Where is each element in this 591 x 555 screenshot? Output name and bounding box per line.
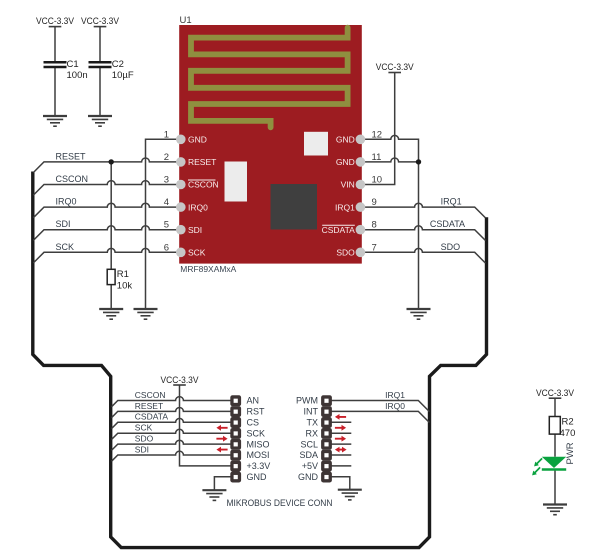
svg-text:IRQ1: IRQ1 bbox=[441, 197, 462, 207]
svg-text:VCC-3.3V: VCC-3.3V bbox=[36, 16, 75, 27]
svg-text:MRF89XAMxA: MRF89XAMxA bbox=[180, 264, 236, 274]
svg-text:GND: GND bbox=[188, 135, 207, 145]
svg-text:RESET: RESET bbox=[56, 151, 87, 161]
svg-text:2: 2 bbox=[164, 152, 169, 163]
svg-text:U1: U1 bbox=[180, 15, 192, 26]
svg-text:SCK: SCK bbox=[188, 248, 206, 258]
svg-text:GND: GND bbox=[336, 157, 355, 167]
svg-text:GND: GND bbox=[336, 135, 355, 145]
svg-text:CSDATA: CSDATA bbox=[430, 219, 465, 229]
svg-text:SDI: SDI bbox=[188, 225, 202, 235]
svg-text:CSDATA: CSDATA bbox=[135, 412, 169, 422]
svg-text:12: 12 bbox=[372, 129, 383, 140]
svg-text:GND: GND bbox=[247, 472, 268, 482]
svg-text:R2: R2 bbox=[562, 417, 574, 428]
svg-text:VCC-3.3V: VCC-3.3V bbox=[161, 375, 200, 386]
svg-text:11: 11 bbox=[372, 152, 382, 163]
svg-text:VIN: VIN bbox=[341, 180, 355, 190]
svg-text:R1: R1 bbox=[117, 269, 129, 280]
svg-text:SDO: SDO bbox=[336, 248, 355, 258]
svg-text:C1: C1 bbox=[67, 59, 79, 70]
svg-text:C2: C2 bbox=[112, 59, 124, 70]
svg-text:RX: RX bbox=[305, 428, 318, 438]
svg-text:RESET: RESET bbox=[188, 157, 216, 167]
svg-text:VCC-3.3V: VCC-3.3V bbox=[81, 16, 120, 27]
svg-text:9: 9 bbox=[372, 197, 377, 208]
svg-text:SDO: SDO bbox=[135, 434, 154, 444]
svg-text:SCK: SCK bbox=[135, 423, 153, 433]
svg-text:100n: 100n bbox=[67, 70, 88, 81]
svg-text:7: 7 bbox=[372, 242, 377, 253]
svg-text:INT: INT bbox=[304, 407, 319, 417]
svg-text:VCC-3.3V: VCC-3.3V bbox=[376, 62, 415, 73]
svg-text:IRQ0: IRQ0 bbox=[188, 202, 208, 212]
svg-text:IRQ1: IRQ1 bbox=[385, 390, 405, 400]
svg-text:3: 3 bbox=[164, 175, 169, 186]
svg-text:8: 8 bbox=[372, 220, 377, 231]
svg-text:CSCON: CSCON bbox=[56, 174, 89, 184]
svg-text:GND: GND bbox=[298, 472, 319, 482]
svg-text:MOSI: MOSI bbox=[247, 450, 270, 460]
svg-text:470: 470 bbox=[560, 428, 576, 439]
svg-text:RESET: RESET bbox=[135, 401, 163, 411]
svg-text:5: 5 bbox=[164, 220, 169, 231]
svg-text:+5V: +5V bbox=[302, 461, 318, 471]
svg-text:TX: TX bbox=[306, 418, 318, 428]
svg-text:MIKROBUS DEVICE CONN: MIKROBUS DEVICE CONN bbox=[227, 498, 333, 509]
svg-text:CS: CS bbox=[247, 418, 260, 428]
svg-text:6: 6 bbox=[164, 242, 169, 253]
svg-text:IRQ0: IRQ0 bbox=[56, 197, 77, 207]
svg-text:SCK: SCK bbox=[56, 242, 75, 252]
svg-text:SDI: SDI bbox=[135, 444, 149, 454]
svg-text:SDI: SDI bbox=[56, 219, 71, 229]
svg-text:SDO: SDO bbox=[441, 242, 461, 252]
svg-text:SCL: SCL bbox=[300, 439, 318, 449]
svg-text:IRQ1: IRQ1 bbox=[335, 202, 355, 212]
svg-text:MISO: MISO bbox=[247, 439, 270, 449]
svg-text:1: 1 bbox=[164, 129, 169, 140]
svg-text:10: 10 bbox=[372, 175, 383, 186]
svg-text:AN: AN bbox=[247, 396, 260, 406]
svg-text:CSCON: CSCON bbox=[135, 390, 166, 400]
svg-text:10µF: 10µF bbox=[112, 70, 134, 81]
svg-text:IRQ0: IRQ0 bbox=[385, 401, 405, 411]
svg-text:4: 4 bbox=[164, 197, 169, 208]
svg-text:SDA: SDA bbox=[299, 450, 318, 460]
svg-text:PWR: PWR bbox=[565, 442, 576, 464]
svg-text:CSDATA: CSDATA bbox=[322, 225, 356, 235]
svg-text:SCK: SCK bbox=[247, 428, 266, 438]
svg-text:RST: RST bbox=[247, 407, 266, 417]
svg-text:CSCON: CSCON bbox=[188, 180, 219, 190]
svg-text:PWM: PWM bbox=[296, 396, 318, 406]
svg-text:VCC-3.3V: VCC-3.3V bbox=[536, 388, 575, 399]
svg-text:10k: 10k bbox=[117, 281, 133, 292]
svg-text:+3.3V: +3.3V bbox=[247, 461, 271, 471]
